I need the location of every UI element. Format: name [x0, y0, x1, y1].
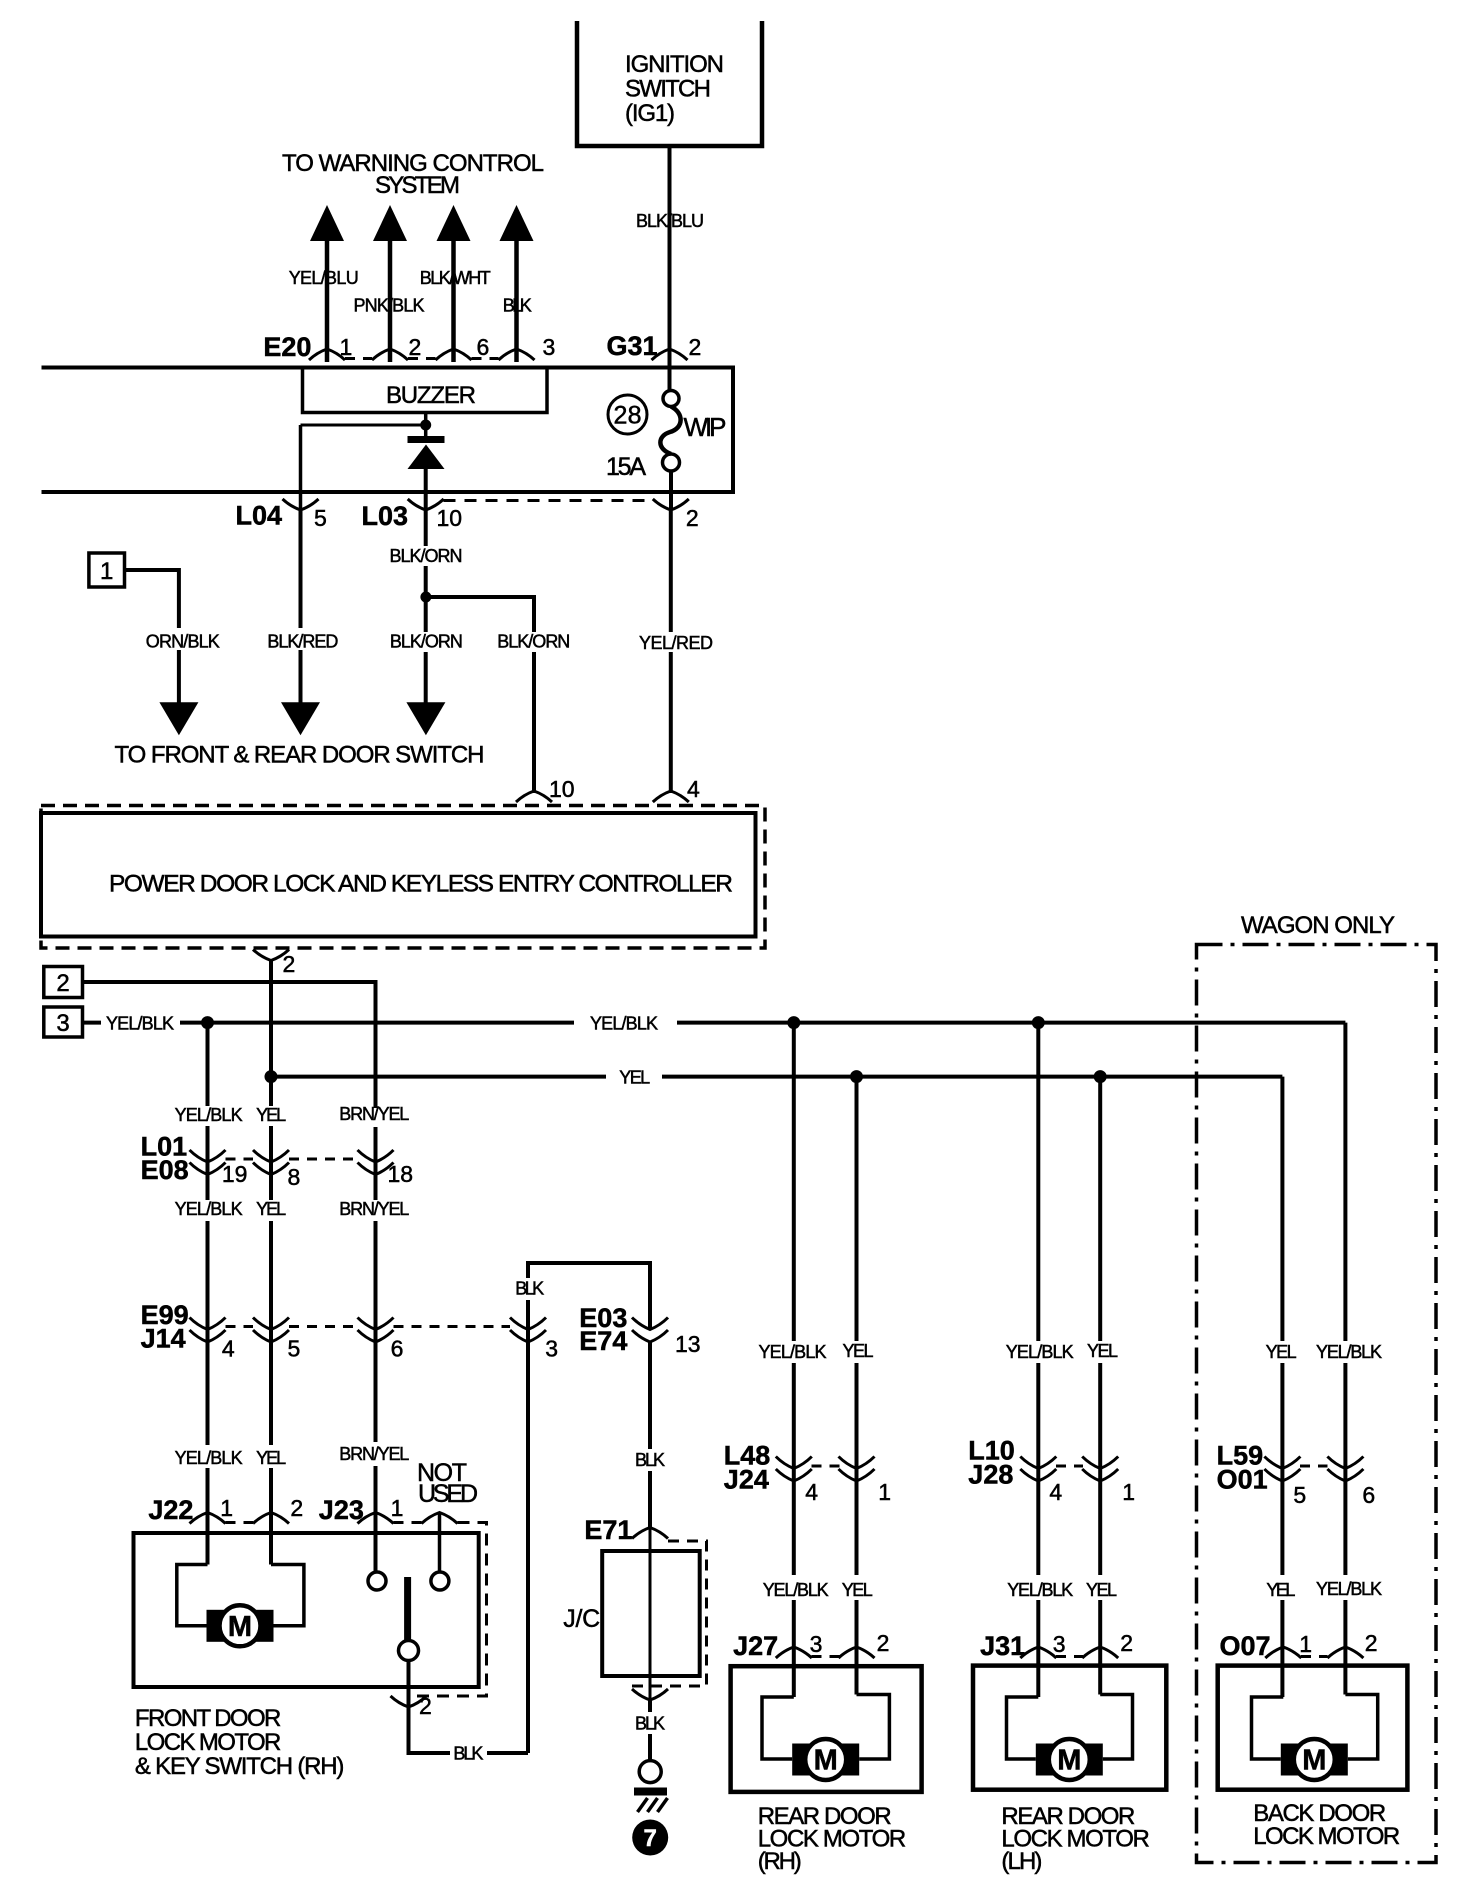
connector not used pin: [422, 1513, 458, 1524]
svg-text:LOCK MOTOR: LOCK MOTOR: [135, 1729, 282, 1756]
svg-text:(RH): (RH): [758, 1848, 802, 1875]
connector J23 pin 1: [358, 1513, 394, 1524]
connector J27 pin 3: [776, 1647, 812, 1658]
connector L59/O01 pin 5: [1264, 1457, 1300, 1482]
svg-text:BLK: BLK: [515, 1279, 544, 1299]
svg-text:19: 19: [222, 1161, 248, 1187]
wire YEL/BLK bus: [83, 1021, 102, 1025]
dashed link J27: [812, 1655, 840, 1658]
arrow to front and rear door switch 2: [281, 702, 320, 735]
controller pin 2 out: [253, 950, 289, 961]
dashed link O07: [1301, 1655, 1328, 1658]
svg-text:3: 3: [810, 1631, 823, 1657]
wire branch to controller pin 10: [426, 597, 534, 632]
motor loop front door: [177, 1565, 208, 1626]
svg-text:2: 2: [290, 1495, 303, 1521]
connector J27 pin 2: [839, 1647, 875, 1658]
svg-text:J14: J14: [141, 1324, 186, 1354]
svg-text:YEL/BLK: YEL/BLK: [106, 1014, 174, 1034]
svg-text:YEL: YEL: [256, 1105, 286, 1125]
junction dot YEL to J27: [850, 1070, 863, 1083]
junction dot YEL/BLK to L01: [201, 1016, 214, 1029]
connector E20 pin 6: [436, 349, 472, 360]
controller pin 10: [516, 791, 552, 802]
wire not used pin: [438, 1513, 442, 1573]
back door lock motor box: [1218, 1666, 1408, 1790]
motor M rear RH: [792, 1739, 859, 1780]
wire YEL to J27: [855, 1077, 859, 1341]
motor M back door: [1281, 1739, 1348, 1780]
svg-text:USED: USED: [418, 1480, 478, 1508]
svg-text:BRN/YEL: BRN/YEL: [339, 1199, 409, 1219]
svg-text:J22: J22: [148, 1495, 193, 1525]
svg-text:5: 5: [314, 505, 327, 531]
svg-text:3: 3: [1053, 1631, 1066, 1657]
key switch contact circle right: [431, 1572, 449, 1590]
svg-text:J24: J24: [724, 1465, 769, 1495]
svg-text:IGNITION: IGNITION: [625, 51, 724, 78]
svg-text:BLK: BLK: [635, 1450, 665, 1470]
svg-text:BRN/YEL: BRN/YEL: [339, 1104, 409, 1124]
dashed link L59/O01: [1300, 1465, 1328, 1468]
svg-text:YEL: YEL: [619, 1068, 650, 1088]
svg-text:POWER DOOR LOCK AND KEYLESS EN: POWER DOOR LOCK AND KEYLESS ENTRY CONTRO…: [109, 871, 733, 898]
fuse number circle 28: [608, 395, 647, 434]
connector J22 pin 1: [190, 1513, 226, 1524]
rear door lock motor RH box: [731, 1666, 922, 1792]
svg-text:J23: J23: [319, 1495, 364, 1525]
junction dot at diode top: [420, 420, 431, 431]
svg-text:YEL/BLK: YEL/BLK: [590, 1014, 658, 1034]
connector E99/J14 pin 5: [253, 1318, 289, 1343]
svg-text:SWITCH: SWITCH: [625, 76, 711, 103]
connector E71 pin: [632, 1528, 668, 1539]
connector J22 pin 2: [253, 1513, 289, 1524]
svg-text:6: 6: [391, 1336, 404, 1362]
svg-text:E74: E74: [579, 1326, 627, 1356]
svg-text:BUZZER: BUZZER: [386, 382, 476, 409]
svg-text:YEL: YEL: [1266, 1580, 1295, 1600]
svg-text:YEL/BLK: YEL/BLK: [1316, 1342, 1382, 1362]
svg-text:8: 8: [288, 1164, 301, 1190]
wire YEL/RED from G31 pin 2 to controller pin 4: [669, 510, 673, 632]
svg-text:2: 2: [409, 334, 422, 360]
svg-text:E08: E08: [141, 1155, 189, 1185]
svg-text:4: 4: [687, 776, 700, 802]
wire BLK/BLU from ignition switch to G31: [668, 148, 672, 361]
junction dot YEL/BLK to J31: [1032, 1016, 1045, 1029]
arrow to front and rear door switch 1: [159, 702, 198, 735]
svg-text:BLK/ORN: BLK/ORN: [390, 632, 463, 652]
svg-text:2: 2: [56, 970, 69, 997]
motor loop rear LH: [1007, 1697, 1039, 1759]
svg-text:WAGON ONLY: WAGON ONLY: [1241, 912, 1395, 939]
wire YEL column (controller pin 2): [269, 961, 273, 1107]
svg-text:15A: 15A: [606, 453, 646, 481]
svg-text:YEL/BLK: YEL/BLK: [175, 1199, 243, 1219]
svg-text:E20: E20: [263, 332, 311, 362]
wire key switch to pin 2: [407, 1661, 411, 1708]
wire arrow 2 to warning control (PNK/BLK): [388, 238, 393, 362]
svg-text:J28: J28: [968, 1460, 1013, 1490]
connector L01/E08 pin 19: [190, 1150, 226, 1175]
wire BLK to ground: [648, 1700, 652, 1712]
connector L10/J28 pin 1: [1082, 1457, 1118, 1482]
connector E99/J14 pin 4: [190, 1318, 226, 1343]
svg-text:1: 1: [878, 1479, 891, 1505]
svg-text:YEL: YEL: [1266, 1342, 1297, 1362]
wagon only dash-dot box: [1197, 945, 1437, 1863]
wire YEL to J31: [1098, 1077, 1102, 1341]
svg-text:2: 2: [283, 951, 296, 977]
junction dot YEL/BLK to J27: [787, 1016, 800, 1029]
svg-text:3: 3: [56, 1010, 69, 1037]
svg-text:YEL/BLK: YEL/BLK: [175, 1448, 243, 1468]
buzzer unit outer box: [42, 368, 734, 493]
svg-text:10: 10: [437, 505, 463, 531]
wire YEL/BLK to J31: [1036, 1023, 1040, 1341]
label BLK above E99 pin 3: [508, 1278, 552, 1300]
svg-text:5: 5: [1293, 1482, 1306, 1508]
connector E20 pin 3: [499, 349, 535, 360]
svg-text:O07: O07: [1220, 1631, 1271, 1661]
wire BLK from key switch up to E03: [528, 1263, 650, 1753]
svg-text:13: 13: [675, 1331, 701, 1357]
svg-text:YEL/BLK: YEL/BLK: [1006, 1342, 1074, 1362]
dashed link L48/J24: [812, 1465, 840, 1468]
connector L48/J24 pin 1: [839, 1457, 875, 1482]
svg-text:LOCK MOTOR: LOCK MOTOR: [1253, 1823, 1400, 1850]
wire from node 2 to BRN/YEL branch: [83, 982, 376, 1108]
connector E99/J14 pin 6: [358, 1318, 394, 1343]
svg-text:BLK/RED: BLK/RED: [267, 632, 338, 652]
dashed link J22: [226, 1521, 254, 1524]
front door box dashed outline: [409, 1523, 487, 1697]
key switch contact circle left: [368, 1572, 386, 1590]
svg-text:3: 3: [545, 1336, 558, 1362]
node box 1: [89, 553, 125, 587]
svg-text:18: 18: [388, 1161, 414, 1187]
front door lock motor box: [134, 1533, 479, 1687]
node box 2: [44, 967, 83, 998]
key switch lever: [404, 1577, 411, 1641]
svg-text:2: 2: [689, 334, 702, 360]
svg-text:10: 10: [549, 776, 575, 802]
junction dot BLK/ORN: [420, 592, 431, 603]
wire YEL to O07: [1280, 1077, 1284, 1341]
svg-text:(LH): (LH): [1001, 1848, 1042, 1875]
fuse WIP 15A symbol: [668, 361, 672, 391]
diode D1 (cathode bar and triangle): [408, 436, 445, 443]
dashed link J31: [1056, 1655, 1083, 1658]
svg-text:1: 1: [100, 558, 113, 585]
svg-text:YEL: YEL: [842, 1580, 873, 1600]
wire arrow 4 to warning control (BLK): [514, 238, 519, 362]
wire buzzer to diode: [424, 413, 428, 438]
svg-text:BLK: BLK: [635, 1714, 665, 1734]
dashed link L01/E08: [226, 1158, 254, 1161]
J/C dashed outline: [625, 1541, 707, 1686]
svg-text:J31: J31: [980, 1631, 1025, 1661]
junction dot YEL to J31: [1094, 1070, 1107, 1083]
connector E20 pin 2: [372, 349, 408, 360]
power door lock controller box: [41, 813, 756, 937]
svg-text:BLK/BLU: BLK/BLU: [636, 211, 704, 231]
motor loop back door: [1252, 1697, 1284, 1759]
motor M rear LH: [1036, 1739, 1103, 1780]
connector E20 pin 1: [309, 349, 345, 360]
svg-text:YEL/BLU: YEL/BLU: [289, 268, 359, 288]
svg-text:TO FRONT & REAR DOOR SWITCH: TO FRONT & REAR DOOR SWITCH: [115, 742, 485, 769]
svg-text:YEL/BLK: YEL/BLK: [1007, 1580, 1073, 1600]
junction dot YEL at pin2 wire: [265, 1070, 278, 1083]
node box 3: [44, 1007, 83, 1037]
wire YEL/BLK column left: [206, 1023, 210, 1106]
svg-text:ORN/BLK: ORN/BLK: [146, 632, 220, 652]
rear door lock motor LH box: [973, 1666, 1166, 1790]
wire through J/C: [649, 1528, 652, 1701]
wire from junction to left branch: [301, 424, 426, 427]
dashed connector link E20: [345, 357, 372, 360]
svg-text:YEL/BLK: YEL/BLK: [1316, 1579, 1382, 1599]
connector O07 pin 2: [1327, 1647, 1363, 1658]
wire left branch down to L04: [299, 425, 303, 510]
junction connector J/C box: [602, 1551, 700, 1676]
connector E03/E74 pin 13: [632, 1318, 668, 1343]
svg-text:O01: O01: [1217, 1465, 1268, 1495]
connector L04 pin 5: [283, 499, 319, 510]
svg-text:& KEY SWITCH (RH): & KEY SWITCH (RH): [135, 1753, 345, 1780]
connector L01/E08 pin 18: [358, 1150, 394, 1175]
svg-text:YEL/RED: YEL/RED: [639, 633, 713, 653]
svg-text:2: 2: [1365, 1630, 1378, 1656]
arrow to front and rear door switch 3: [406, 702, 445, 735]
svg-text:YEL: YEL: [256, 1199, 286, 1219]
connector J31 pin 3: [1020, 1647, 1056, 1658]
wire diode to L03: [424, 469, 428, 510]
connector L10/J28 pin 4: [1020, 1457, 1056, 1482]
svg-text:4: 4: [1049, 1479, 1062, 1505]
motor loop rear RH: [762, 1697, 794, 1759]
key switch pivot circle: [399, 1641, 419, 1661]
svg-text:2: 2: [419, 1693, 432, 1719]
wire YEL/BLK to O07: [1343, 1023, 1347, 1341]
svg-text:L03: L03: [362, 501, 409, 531]
wire arrow 3 to warning control (BLK/WHT): [451, 238, 456, 362]
svg-text:BLK/ORN: BLK/ORN: [390, 546, 463, 566]
power door lock controller dashed outline: [41, 806, 765, 949]
connector G31 pin 2 bottom: [653, 499, 689, 510]
svg-text:4: 4: [222, 1336, 235, 1362]
svg-text:2: 2: [877, 1630, 890, 1656]
svg-text:(IG1): (IG1): [625, 100, 675, 127]
svg-text:YEL/BLK: YEL/BLK: [759, 1342, 827, 1362]
svg-text:YEL: YEL: [256, 1448, 286, 1468]
dashed link E99/J14: [226, 1325, 254, 1328]
connector O07 pin 1: [1265, 1647, 1301, 1658]
svg-text:WIP: WIP: [684, 412, 727, 442]
svg-text:1: 1: [340, 334, 353, 360]
wire BLK E03 to E71: [648, 1342, 652, 1449]
connector E99/J14 pin 3: [510, 1318, 546, 1343]
connector L03 pin 10: [408, 499, 444, 510]
connector pin 2 key switch: [391, 1696, 427, 1707]
connector L48/J24 pin 4: [776, 1457, 812, 1482]
svg-text:1: 1: [220, 1495, 233, 1521]
svg-text:YEL: YEL: [843, 1341, 874, 1361]
wire from node 1: [125, 570, 179, 628]
ground symbol: [639, 1761, 661, 1783]
svg-text:BLK: BLK: [503, 296, 532, 316]
svg-text:BLK/WHT: BLK/WHT: [420, 268, 491, 288]
svg-text:FRONT DOOR: FRONT DOOR: [135, 1705, 282, 1732]
svg-text:J/C: J/C: [563, 1605, 600, 1633]
svg-text:1: 1: [391, 1495, 404, 1521]
buzzer box: [303, 368, 548, 413]
svg-text:BLK/ORN: BLK/ORN: [497, 632, 570, 652]
svg-text:7: 7: [644, 1825, 657, 1852]
svg-text:28: 28: [614, 402, 642, 430]
ignition switch IG1 box: [577, 21, 762, 146]
svg-text:YEL: YEL: [1086, 1580, 1117, 1600]
svg-text:5: 5: [288, 1336, 301, 1362]
wire BRN/YEL column: [374, 1127, 378, 1200]
wire YEL/BLK to J27: [792, 1023, 796, 1341]
connector G31 pin 2: [652, 349, 688, 360]
motor M front door: [207, 1605, 274, 1646]
svg-text:4: 4: [805, 1479, 818, 1505]
wire BLK/ORN from L03: [424, 510, 428, 546]
svg-text:3: 3: [543, 334, 556, 360]
wire BLK from key switch: [409, 1707, 451, 1753]
svg-text:SYSTEM: SYSTEM: [375, 172, 460, 199]
ground number 7: [632, 1820, 668, 1856]
wire BLK/RED from L04: [299, 510, 303, 628]
svg-text:YEL: YEL: [1087, 1341, 1118, 1361]
connector L01/E08 pin 8: [253, 1150, 289, 1175]
connector L59/O01 pin 6: [1327, 1457, 1363, 1482]
svg-text:1: 1: [1122, 1479, 1135, 1505]
svg-text:2: 2: [1120, 1630, 1133, 1656]
connector J/C out: [632, 1689, 668, 1700]
svg-text:G31: G31: [607, 331, 658, 361]
svg-text:E71: E71: [584, 1515, 632, 1545]
dashed link L10/J28: [1056, 1465, 1083, 1468]
svg-text:2: 2: [686, 505, 699, 531]
connector J31 pin 2: [1082, 1647, 1118, 1658]
svg-text:YEL/BLK: YEL/BLK: [175, 1105, 243, 1125]
svg-text:6: 6: [477, 334, 490, 360]
wire arrow 1 to warning control (YEL/BLU): [325, 238, 330, 362]
svg-text:1: 1: [1299, 1631, 1312, 1657]
svg-text:BLK: BLK: [453, 1744, 483, 1764]
svg-text:L04: L04: [236, 501, 283, 531]
wire YEL bus: [271, 1075, 606, 1079]
controller pin 4: [653, 791, 689, 802]
svg-text:YEL/BLK: YEL/BLK: [763, 1580, 829, 1600]
dashed connector link L03 to G31: [444, 499, 653, 502]
svg-text:J27: J27: [733, 1631, 778, 1661]
svg-text:PNK/BLK: PNK/BLK: [354, 296, 425, 316]
svg-text:6: 6: [1362, 1482, 1375, 1508]
svg-text:BRN/YEL: BRN/YEL: [339, 1444, 409, 1464]
